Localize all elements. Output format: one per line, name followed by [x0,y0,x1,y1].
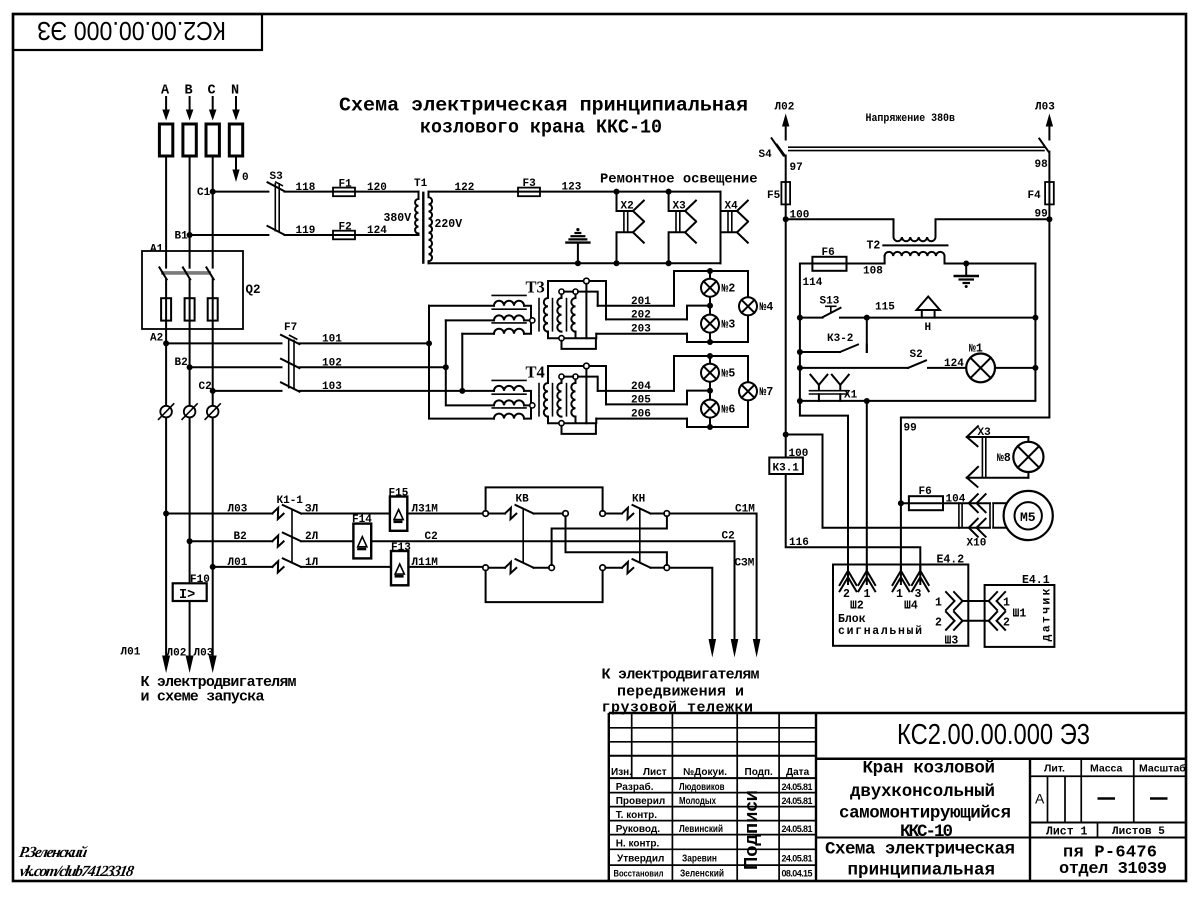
svg-text:24.05.81: 24.05.81 [782,824,813,834]
fuse F5 [767,182,790,204]
current transformer B [182,403,198,420]
svg-text:Масса: Масса [1090,763,1123,775]
svg-text:380V: 380V [384,212,412,225]
node mid lamp2/3 [707,303,713,309]
wire 2Л to F14 [301,540,353,542]
svg-text:Т4: Т4 [526,363,545,382]
svg-text:119: 119 [296,225,316,237]
node K1-1 row3 on A [163,511,169,517]
svg-text:Левинский: Левинский [679,824,723,835]
arrow C1M [753,639,761,658]
wire 98 [1048,152,1050,182]
svg-text:Л03: Л03 [1035,102,1055,114]
svg-text:08.04.15: 08.04.15 [782,869,813,879]
contactor contact KB bottom [488,559,548,573]
wire A in Q2 [165,279,167,343]
svg-text:А: А [1035,791,1045,807]
svg-text:Схема электрическая: Схема электрическая [825,840,1015,860]
title block text [611,719,1186,881]
svg-text:Лит.: Лит. [1044,763,1065,775]
svg-text:1: 1 [935,597,942,610]
svg-text:КС2.00.00.000 Э3: КС2.00.00.000 Э3 [897,719,1090,751]
wire 97 [785,156,787,183]
svg-text:1: 1 [1003,597,1010,610]
svg-text:Напряжение 380в: Напряжение 380в [866,113,956,125]
wire 114 to X1 row [799,368,801,401]
svg-text:самомонтирующийся: самомонтирующийся [839,804,1011,824]
svg-text:передвижения и: передвижения и [617,684,744,701]
relay coil K3.1 [769,458,803,475]
terminal circle row3 b [549,565,555,571]
switch S2 [908,349,926,368]
svg-text:114: 114 [803,277,823,289]
wire 114 to S13 [800,317,823,319]
node X2 bottom [614,260,620,266]
svg-text:vk.com/club74123318: vk.com/club74123318 [18,863,135,880]
node K1-1 row2 on B [187,538,193,544]
thermal relay F14 [352,514,372,558]
thermal relay F15 [389,488,409,531]
node ground [963,261,969,267]
svg-text:24.05.81: 24.05.81 [782,796,813,806]
node X3 top [666,189,672,195]
wire 102 feeder vertical [446,320,494,405]
svg-text:102: 102 [322,357,342,369]
svg-text:Листов 5: Листов 5 [1112,826,1165,838]
terminal circle row3 d [664,565,670,571]
wire phase A down [165,156,167,268]
wire 119 [285,234,356,236]
fuse F4 [1028,182,1054,204]
svg-text:220V: 220V [435,218,463,231]
crossover wire lower [552,516,667,565]
wire rail 100 with T2 primary [786,219,1050,241]
svg-text:103: 103 [322,381,342,393]
svg-text:B2: B2 [175,357,188,369]
connector X3 pin top [967,426,1029,446]
socket X2 [617,192,644,264]
wire 203 to bottom rail [687,315,748,342]
wire F4 to node 99 [1048,204,1050,219]
node B2 [187,364,193,370]
terminal circle row1 a [483,511,489,517]
svg-text:и схеме запуска: и схеме запуска [141,689,265,706]
svg-text:Q2: Q2 [246,283,261,297]
svg-text:Ремонтное освещение: Ремонтное освещение [600,173,758,188]
breaker Q2 box [142,251,243,329]
node C2 [210,388,216,394]
svg-text:97: 97 [790,162,803,174]
terminal circle row1 b [563,511,569,517]
fuse F1 [333,179,355,197]
lamp N7 [739,382,773,400]
node K1-1 row1 on C [210,564,216,570]
connector X1 [809,375,858,402]
wire 108 [847,263,885,265]
wire C2 row [371,540,734,542]
wire 114 to K3-2 [799,318,801,352]
breaker Q2 fuse B [185,298,195,320]
wire Л31М [407,513,485,515]
svg-text:124: 124 [367,225,387,237]
terminal circle row1 c [600,511,606,517]
node 104 [898,500,904,506]
wire В2 to K1-1 [190,540,273,542]
connector X3 bars [982,437,985,478]
socket X3 [669,192,696,264]
node X1 out [864,398,870,404]
svg-text:202: 202 [631,309,651,321]
svg-text:116: 116 [789,537,809,549]
bypass loop bottom [486,571,603,603]
svg-text:Л02: Л02 [775,102,795,114]
svg-text:Лист: Лист [643,767,667,778]
wire phase B down [189,156,191,268]
switch F7 [281,322,300,392]
wire 203 [596,333,687,335]
fuse F3 [518,178,540,196]
fuse C [206,124,219,156]
svg-text:201: 201 [631,296,651,308]
svg-text:Н. контр.: Н. контр. [616,838,660,849]
current transformer C [205,403,221,420]
wire 202 [606,318,687,320]
wire C1M [670,514,757,641]
arrow Л03 out [1046,114,1053,140]
svg-text:принципиальная: принципиальная [848,861,996,881]
node X3 bottom [666,260,672,266]
node 101 feeder [426,340,432,346]
svg-text:Н: Н [925,322,932,334]
node lamp rail bottom [707,339,713,345]
wire 99 route [901,219,1050,570]
arrow output Л03 [209,656,217,674]
E4.1 pin 1 [985,592,1010,610]
svg-text:Восстановил: Восстановил [614,869,664,880]
wire 114 [800,264,813,318]
fuse B [183,124,196,156]
node 115 right [1032,315,1038,321]
svg-text:Т2: Т2 [867,240,881,253]
wire C2 down [734,541,736,640]
svg-text:T1: T1 [414,178,428,190]
handwritten signature [18,844,136,880]
connector X10 [959,494,1007,549]
transformer T3 [491,278,606,349]
wire 103 feeder vertical [462,334,494,391]
horn H [917,297,940,335]
wire 118 [285,191,356,193]
node 115 [864,315,870,321]
breaker Q2 blade B [183,267,190,279]
T3 bottom rails [548,332,596,339]
contactor contact KB top [488,494,562,520]
breaker Q2 linkage bar [161,271,211,275]
arrow input C [209,97,217,121]
arrow input A [162,97,170,121]
wire 124 to lamp N1 [928,367,966,369]
svg-text:Ш1: Ш1 [1013,608,1027,621]
svg-text:Разраб.: Разраб. [616,781,654,793]
svg-text:М5: М5 [1020,510,1036,525]
wire 115 [840,317,1035,319]
wire 123 top rail [518,191,721,193]
svg-text:1: 1 [896,588,903,601]
transformer T4 [491,363,606,434]
svg-text:F7: F7 [284,322,297,334]
svg-text:Кран козловой: Кран козловой [863,759,996,779]
T3 secondary winding 2 [557,298,561,332]
svg-text:К электродвигателям: К электродвигателям [602,667,760,684]
lamp group 2 wires [674,353,748,430]
svg-text:C: C [208,84,216,99]
wire 202 to mid node [687,306,710,320]
svg-text:№5: №5 [722,368,736,381]
schematic main title [339,95,748,139]
T3 primary star bus [524,306,531,334]
svg-text:№4: №4 [760,301,774,314]
contact K3-2 [827,333,867,352]
svg-text:Л31М: Л31М [412,504,439,516]
svg-text:Е4.1: Е4.1 [1022,574,1050,587]
E4.2 pin arrows [840,565,929,592]
transformer T2 [867,240,948,264]
contactor KB link [522,508,524,562]
T3 mid rail to 201 [564,292,598,306]
svg-text:Т3: Т3 [526,278,545,297]
fuse N [229,124,242,156]
svg-text:F1: F1 [339,179,353,191]
wire C in Q2 [212,279,214,391]
breaker Q2 blade C [206,267,213,279]
wire branch to motor bottom [786,435,959,528]
svg-text:КН: КН [632,494,645,506]
svg-text:козлового крана ККС-10: козлового крана ККС-10 [420,117,662,139]
wire 206 [596,418,687,420]
svg-text:2: 2 [843,588,850,601]
thermal relay F13 [391,542,411,586]
T3 center drop [585,284,587,338]
svg-text:К3-2: К3-2 [827,333,853,345]
wire lighting bottom rail [429,262,721,264]
svg-text:Л01: Л01 [121,647,141,659]
svg-text:1: 1 [864,588,871,601]
switch S3 [268,171,285,235]
svg-text:S2: S2 [910,349,923,361]
node 100/K3.1 branch [783,432,789,438]
wire lamp N1 to right [995,367,1035,369]
arrow output Л01 [162,656,170,674]
svg-text:КС2.00.00.000 ЭЗ: КС2.00.00.000 ЭЗ [37,16,226,46]
current transformer A [158,403,174,420]
node 102 feeder [443,364,449,370]
svg-text:B: B [185,84,193,99]
stamp box top-left [13,14,262,50]
svg-text:Лист 1: Лист 1 [1046,826,1088,839]
wire ЗЛ to F15 [301,513,390,515]
svg-text:Ш4: Ш4 [904,600,918,613]
wire K3-2 link down [866,318,868,352]
svg-text:Л03: Л03 [194,648,214,660]
svg-text:203: 203 [631,324,651,336]
wire lamp2 top [709,271,711,279]
ground symbol T2 [954,264,980,289]
svg-text:Масштаб: Масштаб [1139,763,1186,775]
svg-text:24.05.81: 24.05.81 [782,854,813,864]
sensor block E4.1 [985,574,1055,647]
signal block E4.2 [833,554,968,646]
svg-text:123: 123 [562,182,582,194]
svg-text:I>: I> [179,588,195,603]
svg-text:C1: C1 [197,187,211,199]
wire right inner vertical [800,264,1036,401]
svg-text:отдел 31039: отдел 31039 [1059,860,1167,879]
wire 102 [190,366,282,368]
wire lighting right edge [720,192,722,264]
svg-text:Р.Зеленский: Р.Зеленский [18,844,89,861]
terminal circle row1 d [664,511,670,517]
svg-text:B1: B1 [175,231,189,243]
fuse F6 motor [901,486,943,510]
svg-text:120: 120 [367,182,387,194]
svg-text:С2: С2 [425,531,438,543]
svg-text:Проверил: Проверил [616,796,666,807]
wire 120 [355,191,419,193]
node 114/S13 [797,315,803,321]
push button S13 [820,296,841,318]
overcurrent relay F10 [173,574,210,603]
wire lamp2 bottom [709,297,711,315]
svg-text:№6: №6 [722,404,736,417]
svg-text:118: 118 [296,182,316,194]
wire C down to K1-1 [212,391,214,406]
svg-text:Подп.: Подп. [745,767,774,778]
T3 primary winding row2 [494,315,524,320]
node X2 top [614,189,620,195]
T3 primary winding row1 [494,301,524,306]
arrow input B [186,97,194,121]
wire F5 to node 100 [785,204,787,219]
wire B1 to S3 [190,234,269,236]
svg-text:Л11М: Л11М [412,557,439,569]
svg-text:Зеленский: Зеленский [680,869,724,880]
lamp N4 [739,297,773,315]
earth symbol lighting [565,228,590,266]
svg-text:Схема электрическая принципиал: Схема электрическая принципиальная [339,95,748,117]
wire 104 [943,502,959,504]
wire 116 [786,474,921,570]
terminal circle row3 a [483,565,489,571]
T3 winding2/3 top terminals [562,294,576,298]
svg-text:СЗМ: СЗМ [735,558,755,570]
svg-text:24.05.81: 24.05.81 [782,782,813,792]
svg-text:124: 124 [944,358,964,370]
switch S4 [759,138,1049,161]
arrow Л02 out [782,114,789,140]
wire 101 feeder vertical [429,306,494,419]
E4.1 pin 2 [985,612,1010,630]
svg-text:К3.1: К3.1 [773,463,800,475]
wire 201 up to lamp rail [674,271,748,306]
fuse F6 [812,247,846,271]
svg-text:S4: S4 [759,149,773,161]
svg-text:108: 108 [863,266,883,278]
breaker Q2 fuse C [208,298,218,320]
wire T2 secondary right to ground [945,263,1036,265]
svg-text:Дата: Дата [786,767,810,778]
node 99 [1046,216,1052,222]
svg-text:сигнальный: сигнальный [838,625,922,638]
wire 114 to S2 [799,352,801,368]
wire X1 row to E4.2 pin1 [800,401,848,570]
lamp N3 [701,315,735,333]
svg-text:Утвердил: Утвердил [617,854,664,865]
wire left vertical below node100 [785,219,787,457]
svg-text:X10: X10 [967,538,987,550]
svg-text:№3: №3 [722,319,736,332]
socket X4 [721,201,748,243]
arrow C3M [709,639,717,658]
wire 1Л to F13 [301,566,391,568]
connector Ш3 pin 1 [935,592,985,610]
wire Л03 to K1-1 [166,513,272,515]
svg-text:№8: №8 [997,452,1011,465]
wire 122 [429,191,519,193]
lamp N6 [701,400,735,418]
transformer T1 [384,178,463,264]
node A2 [163,340,169,346]
contactor contact KH bottom [605,559,664,573]
svg-text:2: 2 [935,617,942,630]
svg-text:X1: X1 [844,390,858,402]
wire B in Q2 [189,279,191,367]
svg-text:F5: F5 [767,190,781,202]
T3 core bars [538,298,540,332]
svg-text:КВ: КВ [516,494,530,506]
T3 primary core lines [491,294,526,296]
bypass loop top [486,487,603,510]
crossover wire upper [566,516,667,565]
motor M5 [1004,491,1053,540]
svg-text:2: 2 [1003,617,1010,630]
fuse A [159,124,172,156]
svg-text:№2: №2 [722,283,736,296]
wire 201 [598,305,674,307]
breaker Q2 fuse A [161,298,171,320]
svg-text:0: 0 [242,172,249,184]
connector Ш3 pin 2 [935,612,985,630]
T3 secondary winding 1 [544,298,548,332]
node 103 feeder [459,388,465,394]
svg-text:122: 122 [455,182,475,194]
connector X3 pin bottom [967,467,1029,487]
wire Л11М [408,566,485,568]
node B1 [187,232,193,238]
T3 secondary top rail [548,281,606,319]
terminal circle row3 c [600,565,606,571]
contactor contact KH top [605,494,664,520]
svg-text:101: 101 [322,334,342,346]
svg-text:204: 204 [631,381,651,393]
svg-text:С1М: С1М [735,504,755,516]
node C1 [210,189,216,195]
svg-text:205: 205 [631,394,651,406]
svg-text:№7: №7 [760,386,774,399]
T3 primary winding row3 [494,329,524,334]
svg-text:Подписи: Подписи [740,790,761,870]
wire 205 [606,403,687,405]
breaker Q2 blade A [159,267,166,279]
